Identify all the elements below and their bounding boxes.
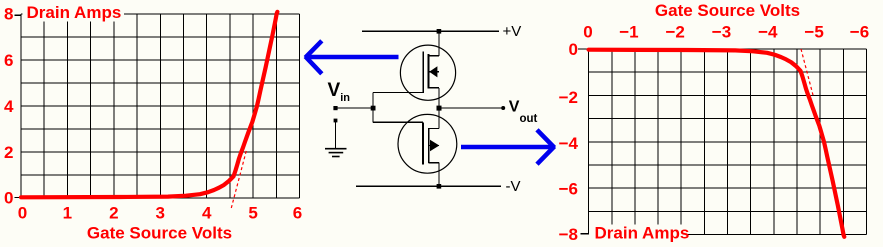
svg-text:2: 2	[109, 204, 118, 223]
svg-text:0: 0	[18, 204, 27, 223]
right chart dashed tangent line	[801, 49, 814, 97]
svg-text:3: 3	[155, 204, 164, 223]
svg-text:2: 2	[4, 143, 13, 162]
svg-text:Drain Amps: Drain Amps	[27, 3, 122, 22]
svg-text:6: 6	[293, 204, 302, 223]
left chart tick at 8	[15, 14, 22, 16]
right chart grid	[589, 49, 867, 235]
wire: drain of lower MOSFET up to output node	[438, 108, 440, 129]
right chart tick at -8	[581, 233, 590, 235]
node A gate junction dot	[371, 106, 376, 111]
wire: dot to ground	[335, 121, 337, 149]
svg-text:−3: −3	[712, 23, 731, 42]
Vin input wire	[336, 107, 374, 109]
transistor Q2 lower p-channel MOSFET circle	[398, 114, 457, 173]
blue arrow pointing right to right chart	[461, 130, 554, 164]
Q2 body arrow pointing right	[430, 140, 439, 152]
right chart tick at 0	[578, 48, 588, 50]
wire: to Q2 gate	[373, 121, 423, 123]
svg-text:4: 4	[202, 204, 212, 223]
left chart dashed tangent line	[231, 150, 246, 208]
junction dot on -V rail	[437, 184, 442, 189]
Q1 channel bar	[428, 54, 430, 89]
wire: source of upper MOSFET down to output node	[438, 88, 440, 108]
left chart tick at 0	[15, 197, 22, 199]
Q1 gate bar	[422, 52, 424, 93]
svg-text:−6: −6	[559, 180, 578, 199]
Vout terminal dot	[501, 106, 505, 110]
svg-text:5: 5	[248, 204, 257, 223]
Q1 body stub	[429, 71, 439, 73]
svg-text:−2: −2	[559, 88, 578, 107]
ground symbol	[325, 149, 347, 157]
svg-text:6: 6	[4, 51, 13, 70]
right chart red transfer curve	[589, 50, 845, 237]
svg-text:Gate Source Volts: Gate Source Volts	[87, 223, 232, 242]
+V supply rail	[362, 30, 499, 32]
Q2 channel bar	[428, 128, 430, 163]
svg-text:0: 0	[4, 189, 13, 208]
svg-text:-V: -V	[506, 178, 521, 195]
wire: output node to Vout terminal	[439, 107, 503, 109]
Q1 drain stub	[429, 55, 439, 57]
svg-text:1: 1	[63, 204, 72, 223]
svg-text:−6: −6	[850, 23, 869, 42]
wire: to Q1 gate	[373, 92, 424, 94]
node B output junction dot	[437, 106, 442, 111]
svg-text:0: 0	[583, 23, 592, 42]
svg-text:−4: −4	[758, 23, 778, 42]
wire: gate junction vertical	[372, 93, 374, 123]
blue arrow pointing left to left chart	[305, 41, 398, 74]
svg-text:8: 8	[4, 4, 13, 23]
ground reference dot	[334, 119, 338, 123]
right chart bottom label mask	[593, 225, 685, 245]
Q2 drain stub	[429, 128, 439, 130]
left chart title mask	[23, 2, 125, 22]
Vin terminal dot	[333, 106, 337, 110]
svg-text:−4: −4	[559, 134, 579, 153]
junction dot on +V rail	[437, 29, 442, 34]
Q2 body stub	[429, 145, 439, 147]
-V supply rail	[356, 185, 501, 187]
wire: drain of upper MOSFET to +V rail	[438, 31, 440, 56]
svg-text:Drain Amps: Drain Amps	[595, 224, 690, 243]
svg-text:4: 4	[4, 97, 14, 116]
Q1 body arrow pointing left	[429, 66, 437, 77]
svg-text:+V: +V	[503, 23, 522, 40]
left chart grid	[21, 14, 300, 198]
svg-text:−1: −1	[619, 23, 638, 42]
Q2 gate bar	[422, 122, 424, 164]
transistor Q1 upper n-channel MOSFET circle	[400, 45, 455, 100]
svg-text:0: 0	[569, 40, 578, 59]
svg-text:−5: −5	[804, 23, 823, 42]
svg-text:−8: −8	[559, 225, 578, 244]
wire: source of lower MOSFET to -V rail	[438, 163, 440, 187]
Q1 source stub	[429, 87, 439, 89]
Q2 source stub	[429, 162, 439, 164]
left chart red transfer curve	[21, 12, 277, 198]
svg-text:−2: −2	[666, 23, 685, 42]
svg-text:Gate Source Volts: Gate Source Volts	[655, 1, 800, 20]
